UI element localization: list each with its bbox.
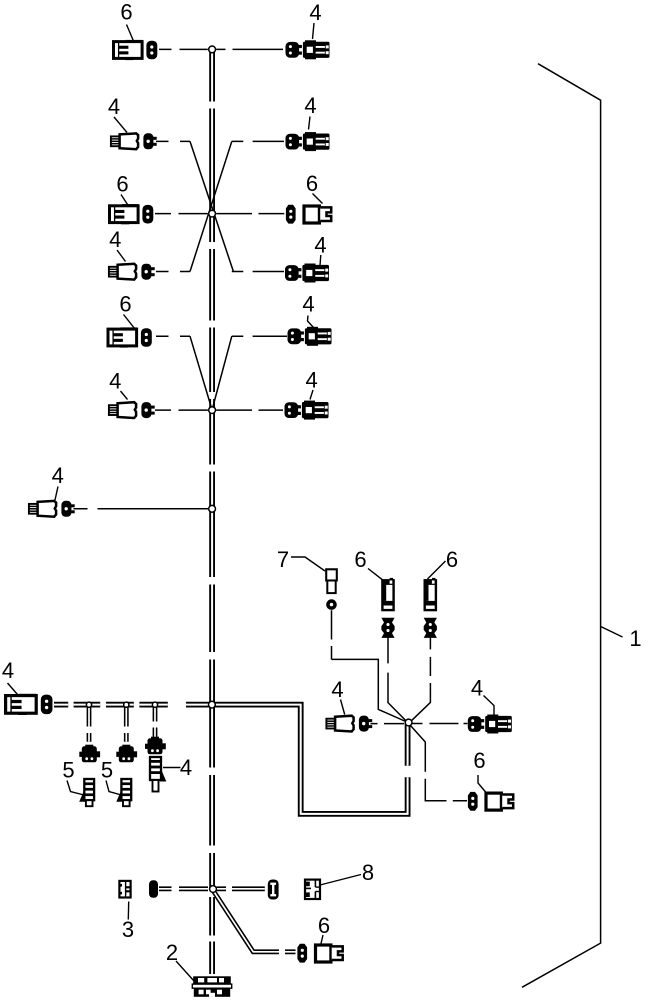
leader 6c [478, 775, 486, 793]
svg-text:6: 6 [473, 748, 485, 773]
wire: item6b branch path [410, 637, 431, 722]
connector black oval (bottom left) [149, 880, 158, 898]
wire: item6a branch path [388, 637, 407, 722]
connector 4 row6 left [109, 402, 155, 418]
connector 6 row3 right [286, 205, 331, 224]
connector 6 row1 left [114, 40, 158, 60]
node fan [405, 719, 412, 726]
wire: tap drop 2 (double) [124, 707, 129, 742]
svg-text:7: 7 [277, 547, 289, 572]
svg-text:4: 4 [109, 369, 121, 394]
connector 4 row7 far left [29, 501, 75, 517]
svg-text:4: 4 [52, 463, 64, 488]
svg-text:6: 6 [446, 547, 458, 572]
connector 4 mid right of fan [468, 715, 512, 734]
svg-text:4: 4 [471, 676, 483, 701]
connector 6b (middle vertical) [424, 578, 437, 638]
connector 6d (bottom) [297, 944, 342, 963]
node harness crossing [209, 701, 216, 708]
leader 5a [67, 781, 84, 796]
connector tap3 upper [145, 737, 166, 755]
wire: row1 right [216, 48, 283, 50]
connector 4 row1 right [286, 40, 330, 59]
leader 5b [106, 781, 122, 796]
leader 4 mid right [484, 696, 495, 716]
node bottom cross [210, 886, 217, 893]
svg-text:4: 4 [108, 94, 120, 119]
leader row2 right [309, 117, 311, 130]
connector 3 (bottom left) [119, 881, 130, 898]
tap node 3 [152, 702, 157, 707]
connector 4 harness far left [6, 694, 53, 715]
wire: row5 right with diagonal [212, 336, 287, 409]
connector 4 row5 right [288, 327, 332, 346]
connector 2 (bottom trunk end) [192, 976, 231, 997]
connector 7 (middle) [326, 569, 337, 610]
leader 2 [176, 961, 194, 981]
node row1 [209, 46, 216, 53]
wire: row3 right [216, 213, 284, 215]
connector 5b plug [116, 779, 131, 806]
svg-text:5: 5 [62, 758, 74, 783]
tap node 1 [86, 702, 91, 707]
wire: main trunk (double line, dashed) [209, 49, 215, 974]
wire: row6 right [216, 409, 283, 411]
wire: row2 left with diagonal [156, 141, 233, 271]
wire: tap drop 1 (double) [87, 707, 92, 742]
wire: row7 long left [74, 508, 209, 510]
leader row2 left [114, 117, 127, 133]
leader 8 [320, 875, 361, 886]
leader 6b [428, 561, 446, 579]
leader row6 right [310, 390, 313, 400]
svg-text:3: 3 [122, 917, 134, 942]
svg-text:1: 1 [629, 626, 641, 651]
wire: fan node to lower right connector [411, 726, 467, 801]
wire: bottom cross left (double dashed) [159, 886, 208, 891]
leader row4 right [319, 255, 322, 266]
leader for label 1 [601, 627, 623, 638]
wire: row2 right with diagonal [190, 141, 284, 271]
svg-text:6: 6 [119, 292, 131, 317]
wire: fan node to right connector [412, 723, 468, 725]
svg-text:6: 6 [318, 913, 330, 938]
connector 5a plug [79, 779, 94, 806]
connector 8 [305, 880, 320, 899]
svg-text:4: 4 [180, 755, 192, 780]
leader 7 [291, 557, 325, 571]
wire: tap drop 3 (double) [153, 707, 158, 737]
wire: row4 left with diagonal [156, 271, 190, 273]
connector 6 row5 left [108, 327, 152, 347]
leader 6d [321, 935, 323, 944]
connector 6c lower right [468, 792, 513, 811]
leader 3 [127, 902, 129, 920]
leader row6 left [121, 391, 128, 400]
wire: row3 left [155, 213, 208, 215]
svg-text:4: 4 [314, 233, 326, 258]
node row6 [209, 407, 216, 414]
leader 4 mid [341, 700, 345, 715]
wire: row6 left [155, 409, 208, 411]
connector 6 row3 left [110, 204, 154, 224]
leader row1 right [313, 23, 315, 39]
leader 6a [368, 569, 384, 582]
wire: fan node to left connector [371, 723, 405, 725]
leader 4 harness left [8, 683, 18, 695]
leader row1 left [127, 25, 134, 42]
connector tap2 upper [116, 745, 137, 763]
wire: row5 left with diagonal [156, 336, 212, 409]
svg-text:6: 6 [354, 547, 366, 572]
leader row5 right [308, 316, 314, 328]
connector 4 row2 right [286, 132, 330, 151]
svg-text:6: 6 [116, 172, 128, 197]
svg-text:8: 8 [362, 860, 374, 885]
svg-text:4: 4 [304, 93, 316, 118]
leader row3 right [313, 194, 323, 204]
wire: bottom cross right (double dashed) [217, 886, 265, 891]
connector 4 row4 right [285, 264, 329, 283]
leader row3 left [121, 195, 129, 207]
connector I shape (bottom right of node) [268, 880, 279, 900]
connector 6a (middle vertical) [381, 578, 394, 638]
leader row5 left [124, 315, 136, 330]
wire: row1 left [159, 48, 208, 50]
wire: lower-left branch harness (double line U path) [54, 705, 408, 814]
wire: bottom diagonal branch (double) [214, 892, 296, 952]
node row7 [209, 505, 216, 512]
svg-text:4: 4 [305, 368, 317, 393]
connector 4 mid left of fan [326, 716, 372, 732]
svg-text:4: 4 [302, 292, 314, 317]
svg-text:6: 6 [120, 0, 132, 25]
svg-text:4: 4 [2, 658, 14, 683]
svg-text:4: 4 [331, 677, 343, 702]
leader 4 tap3 [163, 767, 181, 769]
connector 4 tap3 plug [150, 757, 166, 792]
connector tap1 upper [79, 745, 100, 763]
wire: row4 right with diagonal [232, 271, 284, 273]
svg-text:5: 5 [101, 758, 113, 783]
connector 4 row2 left [111, 133, 157, 149]
leader row7 [55, 487, 58, 501]
tap node 2 [124, 702, 129, 707]
node row3 [209, 210, 216, 217]
svg-text:4: 4 [109, 227, 121, 252]
svg-text:6: 6 [306, 171, 318, 196]
svg-text:4: 4 [309, 0, 321, 25]
leader row4 left [117, 250, 126, 262]
bracket 1 [522, 64, 601, 988]
connector 4 row4 left [109, 264, 155, 280]
connector 4 row6 right [285, 401, 329, 420]
wire: item7 branch path [332, 610, 407, 722]
